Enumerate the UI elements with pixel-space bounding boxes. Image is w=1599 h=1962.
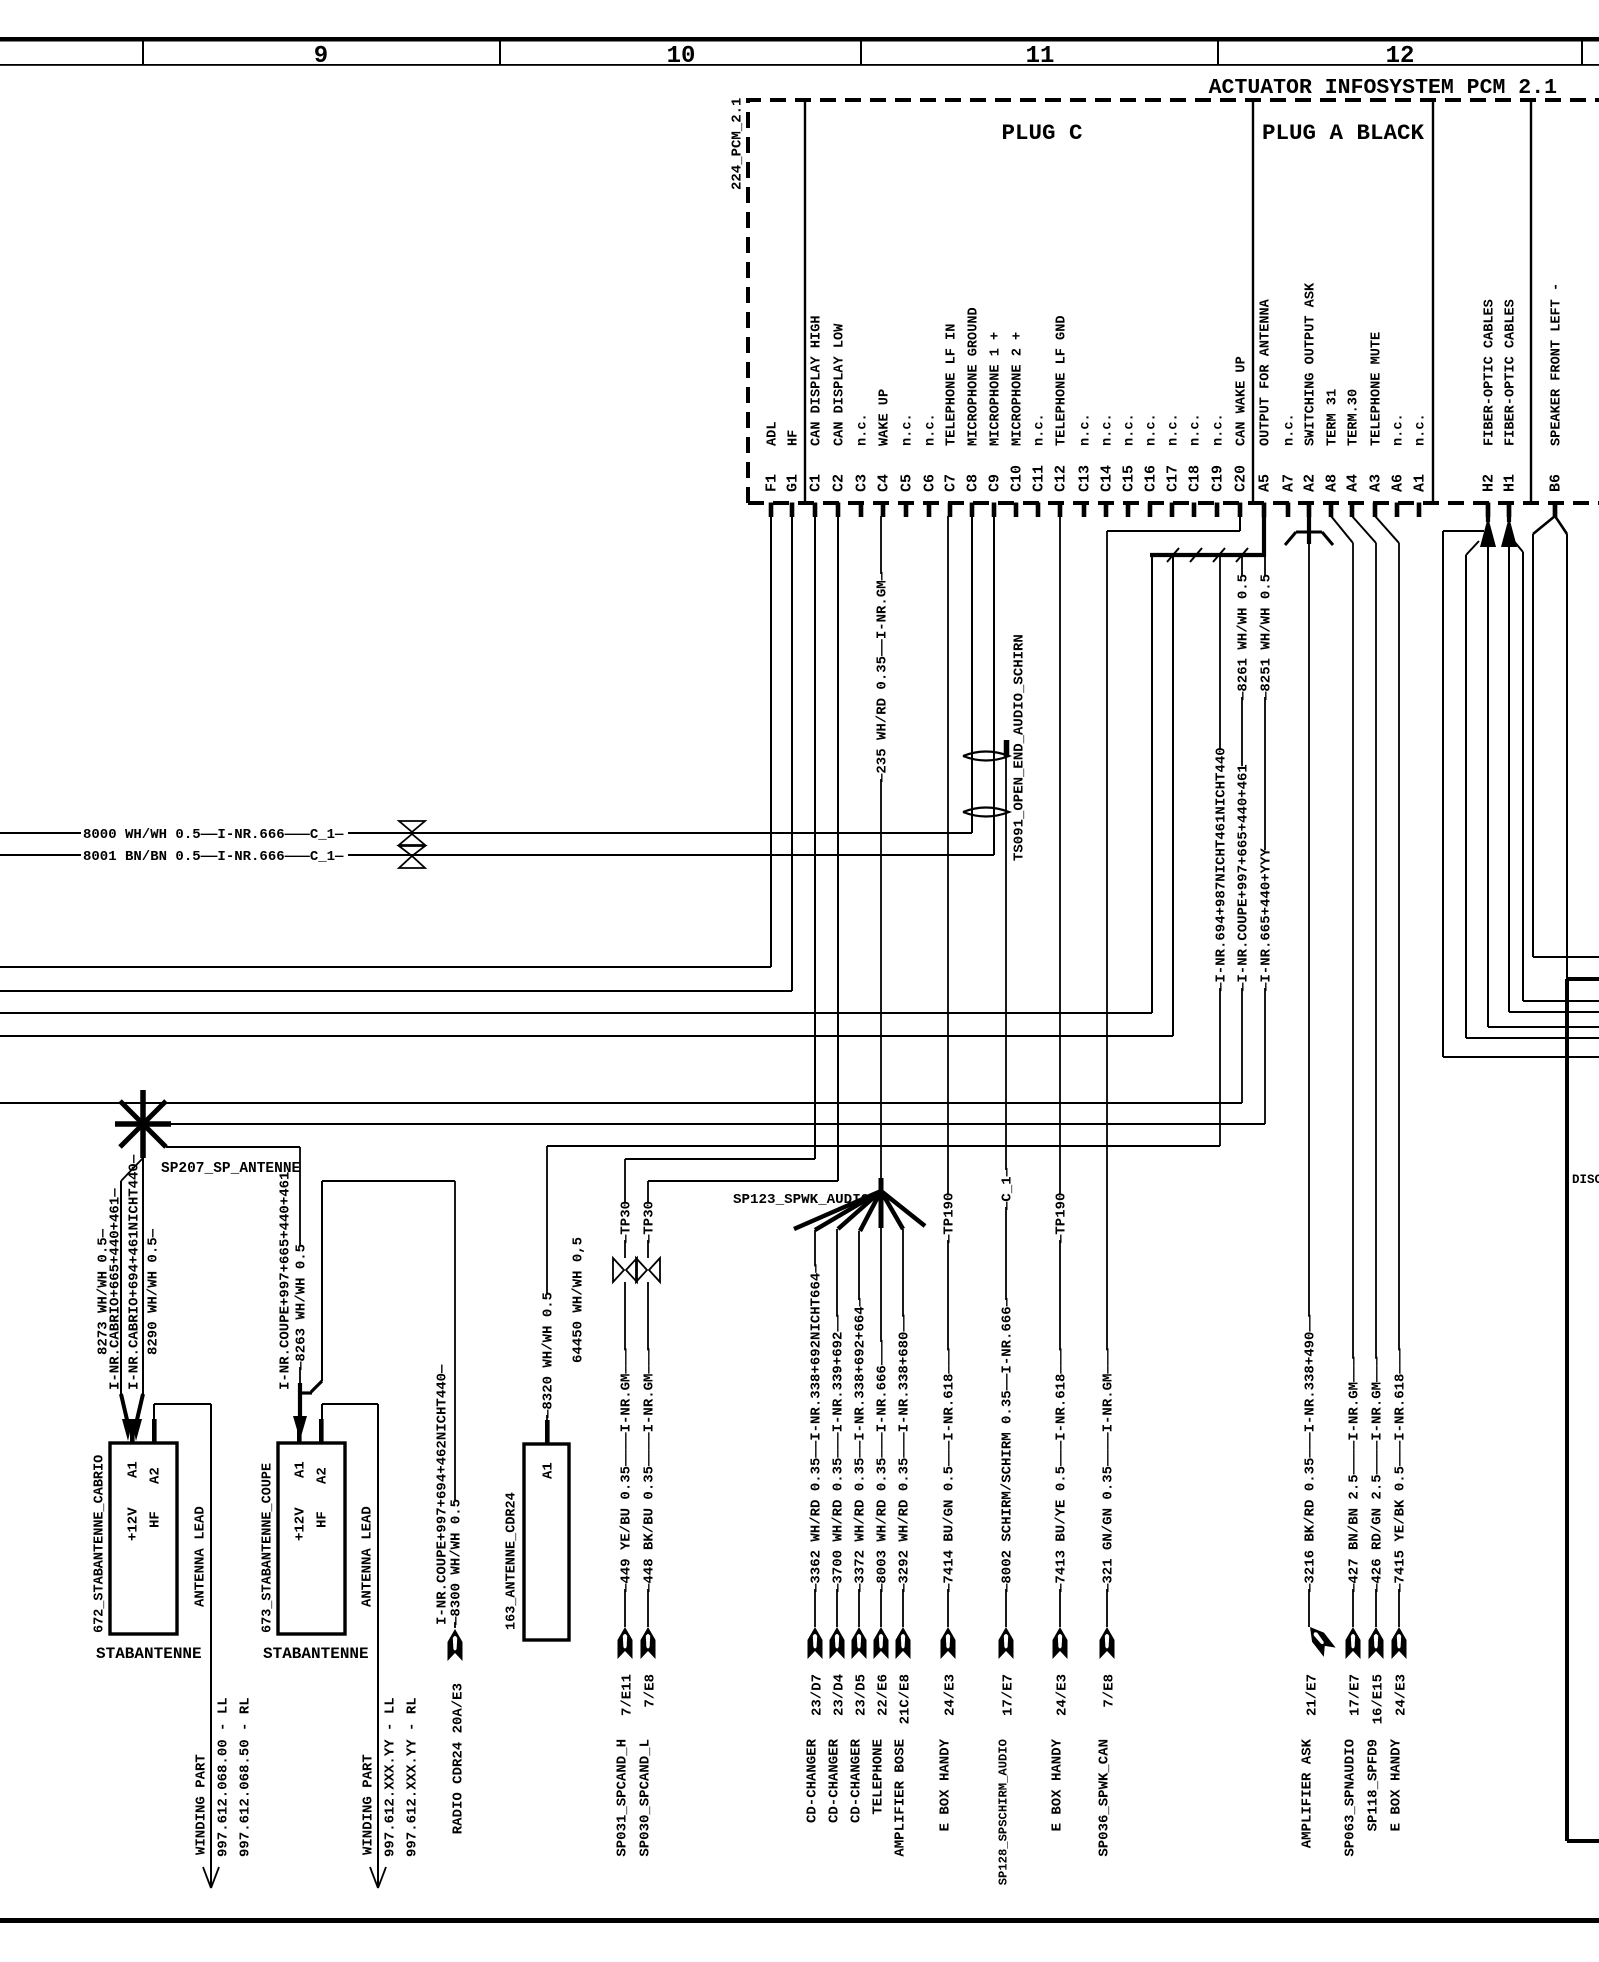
svg-text:CAN DISPLAY LOW: CAN DISPLAY LOW — [833, 323, 848, 446]
destination arrow 24/E3 E BOX HANDY — [941, 1627, 956, 1659]
pin C6 n.c. — [927, 503, 932, 518]
svg-text:n.c.: n.c. — [1392, 413, 1407, 446]
svg-text:997.612.068.50 - RL: 997.612.068.50 - RL — [238, 1697, 254, 1857]
splice SP207_SP_ANTENNE star — [140, 1090, 146, 1158]
svg-text:997.612.XXX.YY - RL: 997.612.XXX.YY - RL — [405, 1697, 421, 1857]
svg-text:—TP30: —TP30 — [619, 1201, 635, 1244]
pin A5 OUTPUT FOR ANTENNA — [1262, 503, 1267, 518]
control unit 224_PCM_2.1 dashed box — [748, 100, 1599, 503]
svg-text:SP031_SPCAND_H: SP031_SPCAND_H — [615, 1739, 631, 1857]
svg-text:17/E7: 17/E7 — [1001, 1674, 1017, 1716]
svg-text:E BOX HANDY: E BOX HANDY — [1050, 1738, 1066, 1831]
svg-text:CD-CHANGER: CD-CHANGER — [827, 1738, 843, 1823]
svg-text:n.c.: n.c. — [1033, 413, 1048, 446]
svg-text:PLUG C: PLUG C — [1001, 120, 1082, 146]
coupe antenna lead — [321, 1404, 323, 1419]
wire 8263 SP207 to antenna coupe A1 — [143, 1124, 166, 1147]
svg-text:23/D4: 23/D4 — [832, 1674, 848, 1716]
svg-text:n.c.: n.c. — [856, 413, 871, 446]
svg-text:n.c.: n.c. — [924, 413, 939, 446]
svg-text:TELEPHONE LF GND: TELEPHONE LF GND — [1055, 315, 1070, 446]
svg-text:C18: C18 — [1187, 465, 1204, 492]
pin H2 FIBER-OPTIC CABLES — [1486, 503, 1491, 518]
svg-text:C15: C15 — [1121, 465, 1138, 492]
bottom border line — [0, 1918, 1599, 1923]
bus drop antenna line I-NR.694 to 163 box — [1219, 557, 1221, 749]
plug section dividers — [804, 100, 806, 503]
svg-text:C8: C8 — [965, 474, 982, 492]
svg-text:+12V: +12V — [293, 1507, 309, 1541]
svg-text:WINDING PART: WINDING PART — [361, 1754, 377, 1855]
svg-text:7/E8: 7/E8 — [1102, 1674, 1118, 1708]
pin B6 SPEAKER FRONT LEFT - — [1553, 503, 1558, 518]
H2 branch via diagonal — [1466, 541, 1479, 555]
svg-text:—321 GN/GN 0.35————I-NR.GM———: —321 GN/GN 0.35————I-NR.GM——— — [1101, 1348, 1117, 1593]
svg-text:C16: C16 — [1143, 465, 1160, 492]
svg-text:—7415 YE/BK 0.5———I-NR.618———: —7415 YE/BK 0.5———I-NR.618——— — [1393, 1348, 1409, 1593]
wire 8273 WH/WH 0.5 from SP207 — [121, 1158, 143, 1181]
svg-text:CD-CHANGER: CD-CHANGER — [849, 1738, 865, 1823]
svg-text:—8251 WH/WH 0.5: —8251 WH/WH 0.5 — [1259, 574, 1275, 701]
svg-text:C20: C20 — [1233, 465, 1250, 492]
svg-text:—426 RD/GN 2.5————I-NR.GM———: —426 RD/GN 2.5————I-NR.GM——— — [1370, 1356, 1386, 1593]
bus drop wire 8261 WH/WH 0.5 to left edge — [1241, 557, 1243, 576]
svg-text:HF: HF — [315, 1511, 331, 1528]
wire 8001 BN/BN 0.5 to left edge with label and connector C_1 — [0, 854, 81, 856]
svg-text:—TP30: —TP30 — [642, 1201, 658, 1244]
DISC unit box cut off at right — [1565, 979, 1569, 1841]
wire C7 TELEPHONE LF IN / 7414 — [947, 516, 949, 1195]
svg-text:64450 WH/WH 0,5: 64450 WH/WH 0,5 — [571, 1237, 587, 1363]
svg-text:—3216 BK/RD 0.35———I-NR.338+49: —3216 BK/RD 0.35———I-NR.338+490—— — [1303, 1314, 1319, 1593]
svg-text:24/E3: 24/E3 — [1394, 1674, 1410, 1716]
wire 8000 WH/WH 0.5 to left edge with label and connector C_1 — [0, 832, 81, 834]
svg-text:OUTPUT FOR ANTENNA: OUTPUT FOR ANTENNA — [1259, 298, 1274, 446]
svg-text:—I-NR.COUPE+997+665+440+461: —I-NR.COUPE+997+665+440+461 — [1236, 764, 1252, 992]
splice SP123_SPWK_AUDIO — [879, 1178, 884, 1228]
svg-text:ADL: ADL — [766, 422, 781, 446]
wire C8 MICROPHONE GROUND through open end to 8000 — [971, 516, 973, 833]
pin A6 n.c. — [1395, 503, 1400, 518]
svg-text:—8261 WH/WH 0.5: —8261 WH/WH 0.5 — [1236, 574, 1252, 701]
svg-text:SP030_SPCAND_L: SP030_SPCAND_L — [638, 1739, 654, 1857]
pin A4 TERM.30 — [1350, 503, 1355, 518]
svg-text:TERM 31: TERM 31 — [1326, 389, 1341, 446]
svg-text:I-NR.COUPE+997+694+462NICHT440: I-NR.COUPE+997+694+462NICHT440— — [435, 1364, 451, 1625]
wire A8 TERM 31 / 427 BN/BN — [1331, 516, 1353, 543]
svg-text:ACTUATOR INFOSYSTEM PCM 2.1: ACTUATOR INFOSYSTEM PCM 2.1 — [1209, 76, 1557, 100]
svg-text:A4: A4 — [1345, 474, 1362, 492]
svg-text:C6: C6 — [922, 474, 939, 492]
svg-text:C17: C17 — [1165, 465, 1182, 492]
antenna 163_ANTENNE_CDR24 box — [524, 1444, 569, 1640]
svg-text:—3292 WH/RD 0.35———I-NR.338+68: —3292 WH/RD 0.35———I-NR.338+680—— — [897, 1314, 913, 1593]
svg-text:n.c.: n.c. — [1123, 413, 1138, 446]
svg-text:24/E3: 24/E3 — [943, 1674, 959, 1716]
svg-text:B6: B6 — [1548, 474, 1565, 492]
svg-text:10: 10 — [667, 43, 696, 70]
wire column 23/D4 CD-CHANGER — [836, 1229, 838, 1317]
wire H1 fiber-optic arrow junction — [1507, 503, 1511, 522]
svg-text:AMPLIFIER BOSE: AMPLIFIER BOSE — [893, 1739, 909, 1857]
cabrio antenna lead — [153, 1404, 155, 1419]
svg-text:A1: A1 — [126, 1461, 142, 1478]
pin C4 WAKE UP — [881, 503, 886, 518]
pin C7 TELEPHONE LF IN — [948, 503, 953, 518]
destination arrow 7/E8 SP036_SPWK_CAN — [1100, 1627, 1115, 1659]
svg-text:997.612.XXX.YY - LL: 997.612.XXX.YY - LL — [383, 1697, 399, 1857]
svg-text:TELEPHONE MUTE: TELEPHONE MUTE — [1370, 332, 1385, 446]
svg-text:I-NR.CABRIO+665+440+461—: I-NR.CABRIO+665+440+461— — [108, 1188, 124, 1390]
pin C2 CAN DISPLAY LOW — [836, 503, 841, 518]
grid ticks — [142, 41, 144, 65]
wire F1 ADL to left edge — [770, 516, 772, 967]
svg-text:224_PCM_2.1: 224_PCM_2.1 — [730, 98, 746, 190]
svg-text:n.c.: n.c. — [1414, 413, 1429, 446]
bus drop wire 8251 WH/WH 0.5 to splice SP207 — [1264, 557, 1266, 576]
svg-text:673_STABANTENNE_COUPE: 673_STABANTENNE_COUPE — [261, 1463, 276, 1633]
svg-text:—TP190: —TP190 — [942, 1193, 958, 1244]
svg-text:—7414 BU/GN 0.5———I-NR.618———: —7414 BU/GN 0.5———I-NR.618——— — [942, 1348, 958, 1593]
svg-text:—3372 WH/RD 0.35——I-NR.338+692: —3372 WH/RD 0.35——I-NR.338+692+664— — [853, 1297, 869, 1593]
destination arrow 17/E7 SP128_SPSCHIRM_AUDIO — [999, 1627, 1014, 1659]
antenna shield bus — [1150, 553, 1266, 557]
wire A5 OUTPUT FOR ANTENNA bold — [1262, 516, 1266, 556]
open end symbol TS091 upper lens — [963, 752, 1009, 761]
wire 8320 WH/WH from antenna line to 163 A1 — [546, 1146, 548, 1294]
pin C15 n.c. — [1126, 503, 1131, 518]
pin F1 ADL — [769, 503, 774, 518]
svg-text:DISC: DISC — [1572, 1173, 1599, 1187]
svg-text:n.c.: n.c. — [901, 413, 916, 446]
svg-text:8001 BN/BN 0.5——I-NR.666———C_1: 8001 BN/BN 0.5——I-NR.666———C_1— — [83, 849, 344, 865]
svg-text:9: 9 — [314, 43, 328, 70]
pin A8 TERM 31 — [1329, 503, 1334, 518]
svg-text:—I-NR.694+987NICHT461NICHT440: —I-NR.694+987NICHT461NICHT440 — [1214, 747, 1230, 992]
pin C1 CAN DISPLAY HIGH — [813, 503, 818, 518]
bus joint slashes — [1167, 548, 1179, 562]
pin C10 MICROPHONE 2 + — [1014, 503, 1019, 518]
wire A3 TELEPHONE MUTE / 7415 YE/BK — [1375, 516, 1399, 543]
svg-text:I-NR.CABRIO+694+461NICHT440—: I-NR.CABRIO+694+461NICHT440— — [127, 1154, 143, 1390]
svg-text:—8263 WH/WH 0.5: —8263 WH/WH 0.5 — [294, 1244, 310, 1371]
arrow into coupe A1 — [298, 1383, 302, 1420]
svg-text:SP063_SPNAUDIO: SP063_SPNAUDIO — [1343, 1739, 1359, 1857]
svg-text:MICROPHONE GROUND: MICROPHONE GROUND — [967, 307, 982, 446]
svg-text:A7: A7 — [1281, 474, 1298, 492]
svg-text:MICROPHONE 2 +: MICROPHONE 2 + — [1011, 332, 1026, 446]
pin C11 n.c. — [1036, 503, 1041, 518]
svg-text:WAKE UP: WAKE UP — [878, 389, 893, 446]
wire C12 TELEPHONE LF GND / 7413 — [1059, 516, 1061, 1195]
svg-text:—TP190: —TP190 — [1054, 1193, 1070, 1244]
svg-text:21/E7: 21/E7 — [1305, 1674, 1321, 1716]
wire 8002 shield from open end down — [1005, 757, 1007, 1170]
svg-text:SP036_SPWK_CAN: SP036_SPWK_CAN — [1097, 1739, 1113, 1857]
svg-text:8000 WH/WH 0.5——I-NR.666———C_1: 8000 WH/WH 0.5——I-NR.666———C_1— — [83, 827, 344, 843]
svg-text:—8002 SCHIRM/SCHIRM 0.35——I-NR: —8002 SCHIRM/SCHIRM 0.35——I-NR.666— — [1000, 1297, 1016, 1593]
wire G1 HF to left edge — [791, 516, 793, 991]
top border line — [0, 37, 1599, 42]
wire column 23/D5 CD-CHANGER — [858, 1231, 860, 1300]
svg-text:24/E3: 24/E3 — [1055, 1674, 1071, 1716]
svg-text:C5: C5 — [899, 474, 916, 492]
svg-text:8290 WH/WH 0.5—: 8290 WH/WH 0.5— — [146, 1228, 162, 1355]
pin C5 n.c. — [904, 503, 909, 518]
svg-text:H2: H2 — [1481, 474, 1498, 492]
pin A1 n.c. — [1417, 503, 1422, 518]
svg-text:12: 12 — [1386, 43, 1415, 70]
svg-text:CD-CHANGER: CD-CHANGER — [805, 1738, 821, 1823]
svg-text:E BOX HANDY: E BOX HANDY — [1389, 1738, 1405, 1831]
svg-text:—7413 BU/YE 0.5———I-NR.618———: —7413 BU/YE 0.5———I-NR.618——— — [1054, 1348, 1070, 1593]
pin A2 SWITCHING OUTPUT ASK — [1307, 503, 1312, 518]
svg-text:n.c.: n.c. — [1101, 413, 1116, 446]
svg-text:HF: HF — [148, 1511, 164, 1528]
destination arrow 24/E3 E BOX HANDY — [1392, 1627, 1407, 1659]
svg-text:21C/E8: 21C/E8 — [898, 1674, 914, 1724]
svg-text:A2: A2 — [315, 1467, 331, 1484]
destination arrow 24/E3 E BOX HANDY — [1053, 1627, 1068, 1659]
svg-text:SWITCHING OUTPUT ASK: SWITCHING OUTPUT ASK — [1304, 282, 1319, 446]
svg-text:C7: C7 — [943, 474, 960, 492]
svg-text:17/E7: 17/E7 — [1348, 1674, 1364, 1716]
svg-text:A1: A1 — [541, 1462, 557, 1479]
pin C14 n.c. — [1104, 503, 1109, 518]
antenna 672_STABANTENNE_CABRIO box — [110, 1443, 177, 1634]
svg-text:AMPLIFIER ASK: AMPLIFIER ASK — [1300, 1738, 1316, 1848]
svg-text:n.c.: n.c. — [1079, 413, 1094, 446]
pin A3 TELEPHONE MUTE — [1373, 503, 1378, 518]
svg-text:C12: C12 — [1053, 465, 1070, 492]
svg-text:—449 YE/BU 0.35————I-NR.GM———: —449 YE/BU 0.35————I-NR.GM——— — [619, 1348, 635, 1593]
svg-text:SPEAKER FRONT LEFT -: SPEAKER FRONT LEFT - — [1550, 283, 1565, 446]
svg-text:A2: A2 — [148, 1467, 164, 1484]
wire column 7/E11 SP031_SPCAND_H — [624, 1159, 626, 1203]
wire column 22/E6 TELEPHONE — [880, 1228, 882, 1342]
svg-text:A1: A1 — [1412, 474, 1429, 492]
pin C17 n.c. — [1170, 503, 1175, 518]
svg-text:11: 11 — [1026, 43, 1055, 70]
radio tap elbow off coupe A1 feed — [321, 1181, 323, 1381]
H2 branch via jog — [1443, 530, 1484, 532]
svg-text:STABANTENNE: STABANTENNE — [96, 1645, 202, 1663]
svg-text:23/D5: 23/D5 — [854, 1674, 870, 1716]
destination arrow 17/E7 SP063_SPNAUDIO — [1346, 1627, 1361, 1659]
svg-text:TELEPHONE LF IN: TELEPHONE LF IN — [945, 324, 960, 446]
destination arrow RADIO CDR24 20A/E3 — [448, 1629, 463, 1661]
svg-text:23/D7: 23/D7 — [810, 1674, 826, 1716]
svg-text:n.c.: n.c. — [1145, 413, 1160, 446]
shield tap hook at open end — [1004, 740, 1010, 757]
svg-text:n.c.: n.c. — [1212, 413, 1227, 446]
svg-text:—3362 WH/RD 0.35——I-NR.338+692: —3362 WH/RD 0.35——I-NR.338+692NICHT664— — [809, 1264, 825, 1593]
svg-text:CAN DISPLAY HIGH: CAN DISPLAY HIGH — [810, 315, 825, 446]
bus drop wire 1 to left edge — [1151, 557, 1153, 1013]
svg-text:MICROPHONE 1 +: MICROPHONE 1 + — [989, 332, 1004, 446]
svg-text:RADIO CDR24 20A/E3: RADIO CDR24 20A/E3 — [451, 1683, 467, 1834]
svg-text:F1: F1 — [764, 474, 781, 492]
wire A4 TERM.30 / 426 RD/GN — [1352, 516, 1376, 543]
wire C1 CAN DISPLAY HIGH to SPCAND_H — [814, 516, 816, 1159]
open end symbol TS091 lower lens — [963, 808, 1009, 817]
svg-text:A5: A5 — [1257, 474, 1274, 492]
grid band line — [0, 64, 1599, 66]
svg-text:C19: C19 — [1210, 465, 1227, 492]
svg-text:TERM.30: TERM.30 — [1347, 389, 1362, 446]
wire C2 CAN DISPLAY LOW to SPCAND_L — [837, 516, 839, 1181]
svg-text:—3700 WH/RD 0.35———I-NR.339+69: —3700 WH/RD 0.35———I-NR.339+692—— — [831, 1314, 847, 1593]
svg-text:n.c.: n.c. — [1189, 413, 1204, 446]
svg-text:A3: A3 — [1368, 474, 1385, 492]
svg-text:SP123_SPWK_AUDIO: SP123_SPWK_AUDIO — [733, 1192, 870, 1208]
wire A2 SWITCHING OUTPUT ASK splice symbol — [1307, 516, 1311, 544]
wire 8290 WH/WH 0.5 from SP207 — [142, 1158, 144, 1396]
svg-text:C10: C10 — [1009, 465, 1026, 492]
svg-text:997.612.068.00 - LL: 997.612.068.00 - LL — [216, 1697, 232, 1857]
svg-text:STABANTENNE: STABANTENNE — [263, 1645, 369, 1663]
svg-text:n.c.: n.c. — [1167, 413, 1182, 446]
wire column 21C/E8 AMPLIFIER BOSE — [902, 1229, 904, 1317]
svg-text:G1: G1 — [785, 474, 802, 492]
svg-text:—I-NR.665+440+YYY: —I-NR.665+440+YYY — [1259, 848, 1275, 992]
svg-text:H1: H1 — [1502, 474, 1519, 492]
svg-text:PLUG A BLACK: PLUG A BLACK — [1262, 120, 1425, 146]
pin C9 MICROPHONE 1 + — [992, 503, 997, 518]
wire C9 MICROPHONE 1+ through open end to 8001 — [993, 516, 995, 855]
svg-text:A8: A8 — [1324, 474, 1341, 492]
arrows into cabrio A1 — [121, 1394, 128, 1424]
svg-text:163_ANTENNE_CDR24: 163_ANTENNE_CDR24 — [505, 1492, 520, 1630]
wire 8300 WH/WH to radio CDR24 — [322, 1180, 455, 1182]
svg-text:ANTENNA LEAD: ANTENNA LEAD — [360, 1506, 376, 1607]
destination arrow 21/E7 AMPLIFIER ASK — [1304, 1622, 1336, 1656]
svg-text:C9: C9 — [987, 474, 1004, 492]
svg-text:—427 BN/BN 2.5————I-NR.GM———: —427 BN/BN 2.5————I-NR.GM——— — [1347, 1356, 1363, 1593]
svg-text:WINDING PART: WINDING PART — [194, 1754, 210, 1855]
pin C20 CAN WAKE UP — [1238, 503, 1243, 518]
bus drop wire 2 to left edge — [1172, 557, 1174, 1036]
svg-text:n.c.: n.c. — [1283, 413, 1298, 446]
svg-text:C3: C3 — [854, 474, 871, 492]
svg-text:ANTENNA LEAD: ANTENNA LEAD — [193, 1506, 209, 1607]
svg-text:A2: A2 — [1302, 474, 1319, 492]
svg-text:E BOX HANDY: E BOX HANDY — [938, 1738, 954, 1831]
svg-text:C2: C2 — [831, 474, 848, 492]
svg-text:C14: C14 — [1099, 465, 1116, 492]
wire C4 WAKE UP / 235 WH/RD 0.35 to splice SP123 — [880, 516, 882, 574]
pin A7 n.c. — [1286, 503, 1291, 518]
pin G1 HF — [790, 503, 795, 518]
wire column 23/D7 CD-CHANGER — [814, 1230, 816, 1266]
wire column 7/E8 SP030_SPCAND_L — [647, 1181, 649, 1203]
svg-text:C4: C4 — [876, 474, 893, 492]
svg-text:—8003 WH/RD 0.35———I-NR.666———: —8003 WH/RD 0.35———I-NR.666——— — [875, 1339, 891, 1593]
H1 branch via diagonal — [1513, 540, 1523, 552]
svg-text:FIBER-OPTIC CABLES: FIBER-OPTIC CABLES — [1483, 299, 1498, 446]
svg-text:TS091_OPEN_END_AUDIO_SCHIRN: TS091_OPEN_END_AUDIO_SCHIRN — [1012, 634, 1028, 861]
pin C13 n.c. — [1082, 503, 1087, 518]
svg-text:FIBER-OPTIC CABLES: FIBER-OPTIC CABLES — [1504, 299, 1519, 446]
svg-text:CAN WAKE UP: CAN WAKE UP — [1235, 356, 1250, 446]
svg-text:C11: C11 — [1031, 465, 1048, 492]
pin C3 n.c. — [859, 503, 864, 518]
svg-text:A1: A1 — [293, 1461, 309, 1478]
wire C20 CAN WAKE UP jog to 321 GN/GN — [1239, 516, 1241, 531]
svg-text:7/E8: 7/E8 — [643, 1674, 659, 1708]
pin C8 MICROPHONE GROUND — [970, 503, 975, 518]
pin C18 n.c. — [1192, 503, 1197, 518]
wire H2 fiber-optic arrow junction — [1486, 503, 1490, 522]
svg-text:A6: A6 — [1390, 474, 1407, 492]
pin C19 n.c. — [1215, 503, 1220, 518]
svg-text:SP128_SPSCHIRM_AUDIO: SP128_SPSCHIRM_AUDIO — [997, 1739, 1011, 1885]
svg-text:22/E6: 22/E6 — [876, 1674, 892, 1716]
antenna 673_STABANTENNE_COUPE box — [278, 1443, 345, 1634]
svg-text:—8300 WH/WH 0.5: —8300 WH/WH 0.5 — [449, 1499, 465, 1626]
svg-text:—C_1—: —C_1— — [1000, 1167, 1016, 1211]
svg-text:—8320 WH/WH 0.5: —8320 WH/WH 0.5 — [541, 1292, 557, 1419]
pin C16 n.c. — [1148, 503, 1153, 518]
wire B6 speaker Y-split — [1553, 503, 1557, 517]
pin H1 FIBER-OPTIC CABLES — [1507, 503, 1512, 518]
svg-text:I-NR.COUPE+997+665+440+461—: I-NR.COUPE+997+665+440+461— — [278, 1163, 294, 1390]
svg-text:—235 WH/RD 0.35——I-NR.GM—: —235 WH/RD 0.35——I-NR.GM— — [875, 571, 891, 783]
svg-text:—448 BK/BU 0.35————I-NR.GM———: —448 BK/BU 0.35————I-NR.GM——— — [642, 1348, 658, 1593]
svg-text:672_STABANTENNE_CABRIO: 672_STABANTENNE_CABRIO — [93, 1455, 108, 1633]
svg-text:HF: HF — [787, 430, 802, 446]
wire 3216 BK/RD to amplifier ASK — [1308, 532, 1310, 1317]
svg-text:C1: C1 — [808, 474, 825, 492]
destination arrow 16/E15 SP118_SPFD9 — [1369, 1627, 1384, 1659]
svg-text:C13: C13 — [1077, 465, 1094, 492]
svg-text:TELEPHONE: TELEPHONE — [871, 1739, 887, 1815]
pin C12 TELEPHONE LF GND — [1058, 503, 1063, 518]
svg-text:+12V: +12V — [126, 1507, 142, 1541]
svg-text:16/E15: 16/E15 — [1371, 1674, 1387, 1724]
svg-text:SP118_SPFD9: SP118_SPFD9 — [1366, 1739, 1382, 1831]
svg-text:7/E11: 7/E11 — [620, 1674, 636, 1716]
